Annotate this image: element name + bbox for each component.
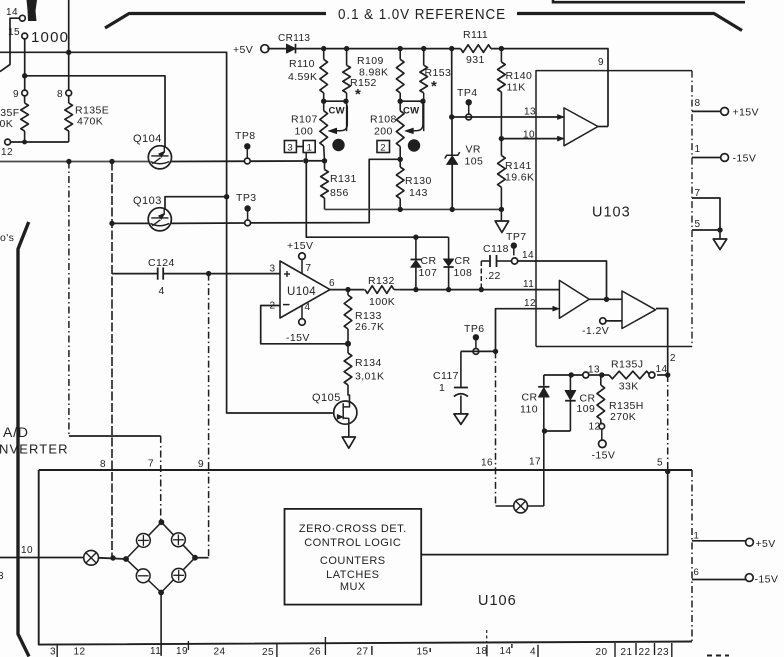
svg-text:13: 13 <box>524 107 536 118</box>
svg-text:1: 1 <box>439 382 445 394</box>
svg-text:U106: U106 <box>478 593 517 609</box>
svg-text:NVERTER: NVERTER <box>0 442 69 457</box>
svg-text:7: 7 <box>148 459 154 470</box>
svg-text:-15V: -15V <box>286 332 310 344</box>
svg-text:100: 100 <box>295 126 314 138</box>
svg-text:856: 856 <box>330 187 349 199</box>
lamp symbol pins 16-17 <box>514 499 528 513</box>
svg-text:13: 13 <box>588 365 600 376</box>
node CR107 top <box>413 235 418 240</box>
node bridge left <box>123 556 129 562</box>
op-amp U103 pin1 wire <box>692 157 721 159</box>
pot R107 wiper arrow <box>336 101 347 131</box>
node R108 bottom <box>398 157 403 162</box>
svg-text:CW: CW <box>403 106 419 117</box>
wire diode clamp top <box>306 161 448 237</box>
svg-text:CW: CW <box>329 106 345 117</box>
connector circle 12 <box>599 424 605 430</box>
svg-text:MUX: MUX <box>340 581 366 593</box>
svg-text:11: 11 <box>150 646 161 657</box>
connector pin 8 <box>66 90 72 96</box>
test point on pin14 wire <box>511 242 517 248</box>
svg-text:R130: R130 <box>405 175 432 187</box>
svg-text:3,01K: 3,01K <box>355 371 384 383</box>
op-amp U103 pin8 wire <box>692 110 721 112</box>
svg-text:1: 1 <box>694 531 700 542</box>
svg-text:4: 4 <box>159 285 165 297</box>
svg-text:R132: R132 <box>368 275 395 287</box>
svg-text:TP3: TP3 <box>236 192 256 204</box>
svg-text:TP8: TP8 <box>235 130 255 142</box>
connector pin 9 <box>22 90 28 96</box>
svg-text:12: 12 <box>74 647 86 657</box>
wire U104 output node to R132 <box>348 289 365 291</box>
wire zero-cross to pin5 <box>421 472 668 555</box>
svg-text:4: 4 <box>530 647 536 657</box>
svg-text:15: 15 <box>8 27 20 38</box>
ground U103 supply <box>719 230 721 239</box>
svg-text:10: 10 <box>523 130 535 141</box>
svg-text:R152: R152 <box>350 77 377 89</box>
node bus VR105 <box>449 46 454 51</box>
svg-text:R141: R141 <box>505 160 532 172</box>
svg-text:11: 11 <box>523 279 534 290</box>
wire gate bias column x69 <box>68 162 70 437</box>
wire to Q103 gate <box>112 222 149 224</box>
svg-text:19.6K: 19.6K <box>505 172 534 184</box>
diode CR113 <box>287 44 296 53</box>
wire pin10 comparator <box>501 138 563 140</box>
svg-text:25: 25 <box>262 647 274 657</box>
node CR110 CR109 <box>542 428 547 433</box>
test point TP8 <box>244 143 250 149</box>
svg-text:108: 108 <box>454 267 473 279</box>
svg-text:107: 107 <box>419 267 438 279</box>
svg-text:1000: 1000 <box>31 29 69 46</box>
svg-text:R107: R107 <box>291 114 318 126</box>
capacitor C124 <box>112 273 158 275</box>
svg-text:105: 105 <box>465 156 484 168</box>
svg-text:18: 18 <box>476 646 488 657</box>
diode CR108 <box>448 237 450 259</box>
node C118 tap <box>479 287 484 292</box>
transformer core bar <box>27 0 38 21</box>
node bus R140 <box>499 46 504 51</box>
svg-text:20: 20 <box>596 647 608 657</box>
resistor R135E <box>68 96 70 103</box>
svg-text:10: 10 <box>21 545 33 556</box>
node VR105 common <box>450 207 455 212</box>
node bus R153 <box>421 46 426 51</box>
resistor R132 <box>365 286 394 294</box>
svg-text:8.98K: 8.98K <box>359 67 388 79</box>
wire R110-R152 tie <box>324 100 346 102</box>
node bus R110 <box>321 46 326 51</box>
wire bus to comparator output <box>491 49 608 127</box>
supply -15V circle U104 <box>299 319 306 326</box>
wire Q103 gate column <box>111 162 113 557</box>
svg-text:R153: R153 <box>425 67 452 79</box>
svg-text:-15V: -15V <box>755 574 779 586</box>
ground C117 <box>454 414 468 425</box>
pin 13 arrowhead <box>558 115 564 120</box>
diode CR107 <box>415 237 417 259</box>
transistor Q105 <box>334 401 357 424</box>
title bracket left <box>105 14 326 29</box>
wire reference bus <box>296 48 461 50</box>
svg-text:TP7: TP7 <box>506 231 526 243</box>
svg-text:9: 9 <box>198 459 204 470</box>
node pot R107 top <box>321 99 326 104</box>
svg-text:4.59K: 4.59K <box>288 71 317 83</box>
wire pin7 column <box>160 436 162 522</box>
node R135F bottom <box>22 140 27 145</box>
node x112 <box>109 159 114 164</box>
resistor R135H <box>600 375 602 385</box>
svg-text:R140: R140 <box>506 70 533 82</box>
connector circle 14 <box>511 258 517 264</box>
svg-text:*: * <box>355 86 361 103</box>
svg-text:-15V: -15V <box>733 153 757 165</box>
node R133 R134 feedback <box>345 341 351 347</box>
svg-text:-1.2V: -1.2V <box>582 325 609 337</box>
node pin5 pin7 <box>717 227 722 232</box>
node bus R152 <box>344 46 349 51</box>
buffer U103c <box>622 291 656 329</box>
svg-text:VR: VR <box>466 144 481 156</box>
op-amp U103 pin7 wire <box>692 198 720 230</box>
svg-text:11K: 11K <box>507 82 526 94</box>
terminal -15V circle <box>721 154 729 162</box>
svg-text:931: 931 <box>466 54 485 66</box>
resistor R134 <box>347 344 349 353</box>
svg-text:7: 7 <box>306 263 312 274</box>
svg-text:+5V: +5V <box>233 44 253 56</box>
wire lamp to bridge <box>99 558 127 559</box>
svg-text:R135J: R135J <box>611 359 643 371</box>
pot R107 element <box>320 111 328 146</box>
connector circle 14b <box>649 372 655 378</box>
node U103b output <box>604 297 609 302</box>
svg-text:TP4: TP4 <box>457 87 477 99</box>
lamp symbol input <box>84 550 99 565</box>
node CR107 bottom <box>413 287 418 292</box>
terminal -15V lower right <box>745 574 753 582</box>
supply +15V circle U104 <box>299 253 306 260</box>
svg-text:0.1 & 1.0V REFERENCE: 0.1 & 1.0V REFERENCE <box>338 7 506 23</box>
bridge edge TL <box>126 522 161 559</box>
pin 10 arrowhead <box>558 136 564 141</box>
terminal -15V lower <box>601 429 603 440</box>
node pin5 <box>665 469 670 474</box>
node R107 bottom <box>322 158 327 163</box>
pin 12 arrowhead <box>553 306 559 311</box>
resistor R152 <box>346 49 348 66</box>
resistor R131 <box>324 161 326 170</box>
wire +5V to CR113 <box>267 48 286 50</box>
wire -1.2V input <box>606 320 622 322</box>
node pot R107 wiper tie <box>303 158 308 163</box>
svg-text:26.7K: 26.7K <box>355 321 384 333</box>
bridge switch TR <box>172 533 186 547</box>
svg-text:A/D: A/D <box>3 424 29 440</box>
bridge edge TR <box>161 522 195 558</box>
svg-text:23: 23 <box>657 647 669 657</box>
node bias bus / Q103 drain <box>224 194 229 199</box>
wire x69 to pin7 <box>69 435 161 437</box>
svg-text:+15V: +15V <box>287 240 313 252</box>
wire pin2 feedback <box>261 306 348 344</box>
svg-text:100K: 100K <box>369 296 395 308</box>
terminal +5V lower <box>746 538 754 546</box>
wire R135J row <box>544 374 583 376</box>
wire U103c output pin2 <box>656 309 668 376</box>
svg-text:5: 5 <box>695 219 701 230</box>
svg-text:26: 26 <box>309 647 321 657</box>
svg-text:6: 6 <box>694 567 700 578</box>
wire pin10 input <box>0 557 84 559</box>
node U104 output <box>345 287 350 292</box>
svg-text:CR: CR <box>421 255 437 267</box>
svg-text:9: 9 <box>13 89 19 100</box>
node pin8 bridge <box>110 555 115 560</box>
connector pin 12 <box>5 139 11 145</box>
wire TP6 node <box>461 350 496 352</box>
bridge edge BL <box>126 559 161 593</box>
node pot R108 top <box>398 99 403 104</box>
comparator U103a <box>564 108 598 146</box>
svg-text:21: 21 <box>621 647 633 657</box>
wire pin11 <box>481 289 559 291</box>
node TP6 column <box>493 349 498 354</box>
wire tap to Q104 drain <box>25 76 165 147</box>
wire to U106 pin17 <box>543 431 545 506</box>
plus sign U104 <box>284 273 290 275</box>
wire CR109 to CR110 junction <box>544 430 571 432</box>
resistor R153 <box>423 49 425 66</box>
svg-text:9: 9 <box>598 57 604 68</box>
node output divider <box>665 372 670 377</box>
svg-text:*: * <box>431 78 437 95</box>
node VR105 pin13 wire <box>449 114 454 119</box>
svg-text:14: 14 <box>6 7 18 18</box>
zero-cross logic box <box>285 509 422 605</box>
bridge right node <box>192 555 198 561</box>
resistor R141 <box>498 155 506 187</box>
zener VR105 <box>447 156 458 164</box>
svg-text:4: 4 <box>305 302 311 313</box>
wire R131/R130/VR105/R141 common <box>325 208 502 210</box>
transistor Q103 <box>148 208 171 231</box>
wire pin12 to R135F/R135E <box>11 141 69 143</box>
svg-text:15: 15 <box>417 647 429 657</box>
resistor R135F <box>24 96 26 103</box>
svg-text:1: 1 <box>695 144 701 155</box>
wire pin15 down <box>24 39 26 90</box>
minus sign U104 <box>283 304 290 306</box>
diode CR110 <box>543 375 545 386</box>
reference -1.2V circle <box>600 318 606 324</box>
test point TP7 marker <box>500 209 502 221</box>
wire pin9 to bridge <box>195 557 209 559</box>
bridge top node <box>159 519 165 525</box>
test point TP4 <box>466 99 472 105</box>
node x69 <box>66 159 71 164</box>
svg-text:U104: U104 <box>287 286 316 298</box>
svg-text:LATCHES: LATCHES <box>326 569 379 581</box>
terminal +15V circle <box>721 108 729 116</box>
terminal +5V <box>261 45 269 53</box>
wire pin8 column upper <box>68 0 70 90</box>
bridge switch BR <box>172 568 186 582</box>
svg-text:110: 110 <box>520 404 538 416</box>
svg-text:33K: 33K <box>619 381 639 393</box>
wire circle14 to node <box>657 374 668 376</box>
svg-text:143: 143 <box>409 187 428 199</box>
svg-text:R109: R109 <box>357 55 384 67</box>
svg-text:COUNTERS: COUNTERS <box>320 555 386 567</box>
svg-text:R108: R108 <box>370 114 397 126</box>
pot R108 wiper terminal box 2 <box>377 141 390 153</box>
svg-text:Q104: Q104 <box>133 133 162 145</box>
svg-text:R134: R134 <box>355 357 382 369</box>
svg-text:3: 3 <box>0 571 4 582</box>
svg-text:22: 22 <box>639 647 651 657</box>
bridge edge BR <box>161 558 195 593</box>
node R152 wiper <box>343 99 348 104</box>
svg-text:C117: C117 <box>433 370 459 382</box>
wire pin3 U104 <box>209 273 280 275</box>
svg-text:8: 8 <box>57 89 63 100</box>
svg-text:5: 5 <box>657 458 663 469</box>
svg-text:470K: 470K <box>0 118 13 130</box>
wire bus to VR105 <box>451 49 453 117</box>
svg-text:TP6: TP6 <box>464 323 484 335</box>
node on pin15 wire <box>22 73 27 78</box>
svg-text:24: 24 <box>214 647 226 657</box>
wire Q105 source to ground <box>348 424 350 437</box>
pot R108 wiper arrow <box>413 101 423 131</box>
wire U104 output <box>330 289 348 291</box>
resistor R111 <box>461 45 492 53</box>
ground Q105 <box>342 437 355 448</box>
svg-text:12: 12 <box>1 147 13 158</box>
node CR108 bottom <box>446 287 451 292</box>
wire main line to Q104 gate <box>0 161 149 163</box>
bridge switch BL <box>136 569 150 583</box>
resistor R130 <box>399 159 401 167</box>
resistor R135J <box>604 374 609 376</box>
node Q103 gate tee <box>109 221 114 226</box>
node bus R109 <box>398 46 403 51</box>
svg-text:19: 19 <box>176 646 188 657</box>
wire pin13 comparator <box>452 116 564 118</box>
wire R132 to pin11 <box>399 289 481 291</box>
svg-text:200: 200 <box>374 126 393 138</box>
wire divider to pin5 <box>667 375 669 472</box>
wire Q103 source to TP3 <box>171 222 245 224</box>
svg-text:16: 16 <box>481 458 493 469</box>
node R135H top <box>599 372 604 377</box>
wire U106 pin1 +5V <box>692 540 746 542</box>
svg-text:12: 12 <box>524 298 536 309</box>
svg-text:C118: C118 <box>483 243 509 255</box>
svg-text:C124: C124 <box>148 257 175 269</box>
wire C118 to pin11 node <box>480 261 482 290</box>
bridge bottom node <box>158 590 164 596</box>
node R141 common <box>499 207 504 212</box>
svg-text:CR: CR <box>522 392 538 404</box>
test point TP6 <box>473 334 479 340</box>
diode CR109 <box>569 375 571 391</box>
test point TP3 <box>244 205 250 211</box>
title bracket right <box>517 14 742 31</box>
svg-text:R131: R131 <box>330 173 357 185</box>
sheet border top <box>553 0 745 4</box>
node C124 pin3 <box>206 271 211 276</box>
cut-off text fragment bottom right <box>707 655 712 657</box>
svg-text:o's: o's <box>0 232 14 244</box>
pot R107 adjustment dot <box>332 139 344 151</box>
svg-text:3: 3 <box>50 647 56 657</box>
svg-text:6: 6 <box>329 278 335 289</box>
resistor R133 <box>347 290 349 295</box>
node CR109 top <box>569 372 574 377</box>
node bias bus / pin8 column <box>66 50 71 55</box>
pot R108 adjustment dot <box>408 139 420 151</box>
wire pin16 column <box>495 351 497 506</box>
bridge switch TL <box>137 534 151 548</box>
svg-text:27: 27 <box>357 647 369 657</box>
capacitor C118 <box>481 260 490 262</box>
wire to R107 bottom <box>309 160 325 162</box>
op-amp U103 pin5 wire <box>692 229 720 231</box>
svg-text:Q105: Q105 <box>312 392 341 404</box>
svg-text:3: 3 <box>270 264 276 275</box>
transistor Q104 <box>148 146 171 169</box>
wire pin12 <box>496 309 558 352</box>
op-amp U103a output wire <box>598 126 608 128</box>
wire U106 pin6 -15V <box>692 579 745 581</box>
svg-text:7: 7 <box>695 188 701 199</box>
svg-text:CONTROL LOGIC: CONTROL LOGIC <box>304 537 401 549</box>
wire Q103 drain to bias bus <box>165 197 227 210</box>
connector pin 14 <box>20 15 26 21</box>
node R130 common <box>398 207 403 212</box>
svg-text:8: 8 <box>695 98 701 109</box>
svg-text:Q103: Q103 <box>133 195 162 207</box>
svg-text:8: 8 <box>100 459 106 470</box>
wire pin16 to lamp <box>496 505 514 507</box>
amplifier U103b <box>559 280 589 318</box>
wire lamp to pin17 <box>528 505 544 507</box>
svg-text:14: 14 <box>522 250 534 261</box>
svg-text:14: 14 <box>500 646 512 657</box>
op-amp U103 box <box>536 71 692 347</box>
svg-text:+5V: +5V <box>756 538 776 550</box>
wire TP3 to R108 bottom <box>251 159 401 223</box>
wire bridge bottom to pin11 <box>160 593 162 656</box>
node R140 R141 junction <box>499 136 504 141</box>
svg-text:1: 1 <box>307 142 313 153</box>
wire +15V stem <box>301 260 303 274</box>
svg-text:-15V: -15V <box>592 450 616 462</box>
resistor R110 <box>323 49 325 60</box>
svg-text:2: 2 <box>670 353 676 364</box>
wire pin9 column <box>208 274 210 558</box>
svg-text:U103: U103 <box>592 205 631 221</box>
svg-text:ZERO·CROSS DET.: ZERO·CROSS DET. <box>299 523 407 535</box>
